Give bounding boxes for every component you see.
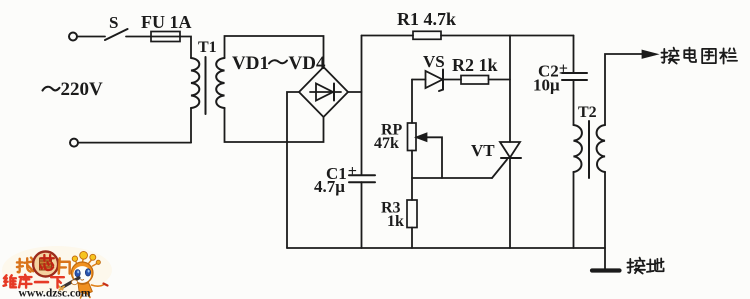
mascot arm with stick bbox=[92, 285, 105, 287]
wire top to C2 bbox=[573, 36, 575, 74]
top wire right of R1 bbox=[441, 35, 574, 37]
zener VS triangle bbox=[426, 71, 443, 88]
label 地 (ground char 2) bbox=[647, 258, 664, 271]
watermark glow bbox=[2, 246, 112, 294]
mascot body bbox=[78, 283, 92, 294]
bridge diode symbol bbox=[310, 84, 341, 101]
mascot antenna stalks bbox=[75, 258, 97, 266]
mascot head helmet bbox=[71, 262, 93, 284]
resistor R2 bbox=[461, 76, 489, 85]
RP wiper arrowhead bbox=[417, 134, 427, 141]
mascot mouth bbox=[81, 279, 84, 282]
svg-text:VS: VS bbox=[423, 52, 445, 71]
mascot hand on pen bbox=[72, 280, 78, 285]
switch S blade bbox=[105, 29, 128, 40]
mascot eye highlights bbox=[77, 270, 89, 274]
svg-text:T2: T2 bbox=[578, 104, 597, 121]
VT gate diagonal bbox=[492, 160, 507, 179]
ground bar bbox=[592, 268, 620, 272]
svg-text:www.dzsc.com: www.dzsc.com bbox=[19, 286, 91, 299]
mascot antenna balls bbox=[72, 251, 100, 264]
label 接 (fence output char 1) bbox=[661, 48, 679, 64]
wire VS to R2 bbox=[443, 79, 461, 81]
watermark char 库 bbox=[19, 275, 31, 288]
wire bridge plus to left rail bbox=[348, 91, 362, 93]
transformer T2 primary winding bbox=[574, 125, 582, 172]
mascot pen tassel bbox=[59, 286, 65, 290]
svg-text:±: ± bbox=[559, 61, 568, 78]
label tilde bbox=[269, 60, 287, 63]
label 接 (ground char 1) bbox=[627, 258, 645, 274]
left rail upper bbox=[361, 36, 363, 176]
mascot pen bbox=[62, 278, 79, 288]
svg-text:47k: 47k bbox=[374, 135, 399, 152]
svg-text:±: ± bbox=[348, 163, 357, 180]
bridge rectifier VD1~VD4 diamond bbox=[299, 67, 348, 117]
gate horizontal wire bbox=[412, 177, 492, 179]
wire T1 secondary bottom to bridge bottom bbox=[225, 108, 324, 142]
watermark char 片 bbox=[59, 258, 70, 273]
svg-text:R1 4.7k: R1 4.7k bbox=[397, 9, 456, 29]
left rail lower bbox=[361, 182, 363, 248]
top wire left of R1 bbox=[362, 35, 414, 37]
svg-text:10μ: 10μ bbox=[533, 76, 560, 95]
label 围 (fence output char 3) bbox=[702, 49, 716, 63]
VT cathode bar bbox=[501, 157, 521, 159]
fuse FU 1A bbox=[151, 32, 180, 42]
resistor R3 bbox=[407, 200, 417, 228]
svg-text:1k: 1k bbox=[387, 213, 404, 230]
label 栏 (fence output char 4) bbox=[720, 48, 737, 63]
wire bottom to terminal bbox=[78, 142, 191, 144]
label ~220V tilde bbox=[43, 87, 60, 91]
T2 core bbox=[588, 121, 590, 178]
wire R2 to right rail bbox=[489, 79, 511, 81]
svg-text:S: S bbox=[109, 13, 118, 32]
wire terminal to switch bbox=[78, 36, 106, 38]
svg-text:4.7μ: 4.7μ bbox=[314, 177, 345, 196]
wire T2 secondary bottom to ground bbox=[604, 172, 606, 271]
terminal top-left bbox=[69, 33, 77, 41]
mascot legs bbox=[81, 294, 91, 298]
wire bridge minus to bottom rail bbox=[287, 92, 299, 248]
svg-text:FU 1A: FU 1A bbox=[141, 12, 192, 32]
transformer T1 primary winding bbox=[191, 58, 199, 108]
watermark char 一 bbox=[35, 280, 48, 284]
T1 core bbox=[205, 57, 207, 114]
svg-text:220V: 220V bbox=[61, 79, 104, 100]
mascot eyes bbox=[75, 269, 91, 277]
right rail upper bbox=[509, 36, 511, 143]
watermark char 找 bbox=[17, 258, 33, 273]
VS cathode bar with hook bbox=[439, 70, 443, 92]
capacitor C1 plates bbox=[349, 175, 375, 182]
resistor R1 bbox=[413, 31, 441, 39]
svg-text:VT: VT bbox=[471, 141, 495, 160]
watermark magnifier ring bbox=[33, 252, 58, 277]
thyristor VT triangle bbox=[500, 142, 520, 158]
svg-text:VD1: VD1 bbox=[232, 53, 269, 74]
transformer T2 secondary winding bbox=[597, 125, 605, 172]
svg-text:VD4: VD4 bbox=[289, 53, 326, 74]
watermark char 下 bbox=[51, 277, 64, 288]
potentiometer RP body bbox=[408, 123, 417, 151]
watermark char 芯 bbox=[40, 255, 54, 270]
right rail lower bbox=[509, 158, 511, 248]
mascot face bbox=[73, 266, 91, 283]
arrowhead fence output bbox=[643, 51, 657, 58]
watermark chip inside magnifier bbox=[40, 258, 52, 270]
label 电 (fence output char 2) bbox=[684, 48, 696, 62]
wire T2 secondary top to fence output bbox=[605, 54, 645, 125]
wire switch to fuse bbox=[126, 36, 151, 38]
capacitor C2 plates bbox=[562, 73, 587, 80]
wire VS anode junction down to RP bbox=[411, 80, 413, 124]
wire T1 secondary top to bridge top bbox=[225, 36, 324, 67]
wire T1 primary bottom bbox=[190, 108, 192, 143]
wire T2 primary bottom to rail bbox=[573, 172, 575, 248]
wire RP bottom to R3 bbox=[411, 151, 413, 201]
wire into VS anode bbox=[412, 79, 426, 81]
wire C2 to T2 primary bbox=[573, 80, 575, 125]
mascot stick red tip bbox=[104, 284, 108, 286]
watermark char 维 bbox=[4, 275, 17, 287]
svg-text:R2 1k: R2 1k bbox=[452, 55, 498, 75]
bottom rail bbox=[287, 247, 605, 249]
wire fuse to T1 primary bbox=[180, 37, 191, 59]
svg-text:T1: T1 bbox=[198, 39, 217, 56]
transformer T1 secondary winding bbox=[216, 58, 224, 108]
wire R3 to bottom rail bbox=[411, 228, 413, 249]
terminal bottom-left bbox=[70, 139, 78, 147]
RP wiper arrow line bbox=[424, 137, 442, 178]
